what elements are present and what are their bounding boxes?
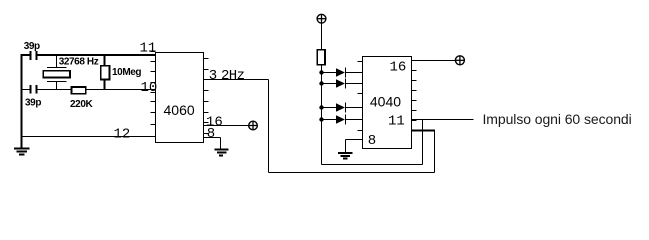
svg-text:39p: 39p	[24, 41, 40, 52]
svg-text:32768 Hz: 32768 Hz	[59, 56, 99, 67]
svg-text:39p: 39p	[25, 98, 41, 109]
svg-text:10: 10	[141, 80, 158, 96]
svg-text:12: 12	[114, 126, 131, 142]
svg-text:11: 11	[140, 40, 157, 56]
svg-text:4040: 4040	[370, 93, 401, 109]
svg-text:8: 8	[368, 133, 376, 149]
svg-text:220K: 220K	[70, 99, 93, 110]
svg-text:3: 3	[209, 68, 217, 84]
svg-text:4060: 4060	[164, 102, 195, 118]
svg-text:16: 16	[390, 59, 407, 75]
svg-text:8: 8	[207, 126, 215, 142]
svg-text:11: 11	[388, 114, 405, 130]
svg-text:Impulso ogni 60 secondi: Impulso ogni 60 secondi	[483, 111, 632, 127]
svg-text:10Meg: 10Meg	[112, 67, 141, 78]
svg-text:2Hz: 2Hz	[221, 68, 245, 84]
